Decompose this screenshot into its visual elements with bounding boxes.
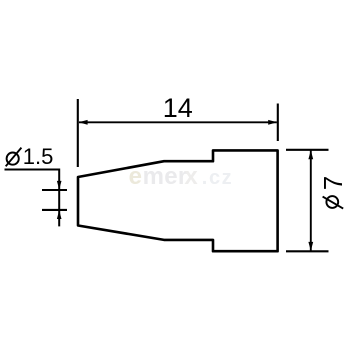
label d1.5: upper arrow (pointing down) [57,181,62,190]
label d1.5: lower tick [42,209,67,211]
label d1.5: underline + leader [5,170,60,227]
dimension 14: right extension line [277,104,279,142]
svg-text:x: x [184,163,198,190]
watermark emerx.cz [129,163,234,190]
label d1.5: diameter symbol [6,148,22,167]
nozzle body outline [78,150,278,251]
svg-text:1.5: 1.5 [23,144,54,169]
dimension 14: left extension line [77,99,79,167]
dimension d7: bottom extension line [286,250,329,252]
dimension d7: dimension line [310,150,312,251]
dimension d7: bottom arrow [308,242,313,251]
svg-text:14: 14 [163,93,193,123]
label d1.5: upper tick [42,189,67,191]
dimension d7: top extension line [286,149,329,151]
svg-text:e: e [129,163,142,190]
svg-text:mer: mer [143,163,188,190]
dimension d7: top arrow [308,150,313,159]
dimension 14: right arrow [268,120,277,125]
label d1.5: lower arrow (pointing up) [57,210,62,219]
svg-text:.cz: .cz [202,167,233,189]
dimension 14: left arrow [79,120,88,125]
svg-text:7: 7 [318,176,348,190]
dimension d7: rotated diameter symbol [323,196,344,209]
dimension 14: dimension line [79,121,277,123]
